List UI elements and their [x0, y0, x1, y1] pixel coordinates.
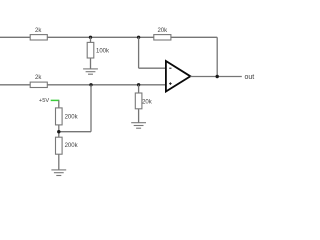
node: feedback junction on top net — [137, 36, 140, 39]
resistor R7 200k (lower divider) — [56, 137, 79, 154]
wire: stub from R2 down to ground — [90, 58, 92, 69]
ground (below R5) — [131, 123, 146, 129]
wire: horizontal from divider midpoint to resistor chain — [59, 131, 91, 133]
wire: horizontal into op-amp inverting input — [139, 67, 166, 69]
op-amp U1 — [166, 61, 191, 92]
wire: stub from +5V down to R6 — [58, 100, 60, 108]
ground (below R7) — [51, 170, 66, 176]
svg-text:20k: 20k — [157, 28, 168, 34]
node: 20k-to-ground junction on bottom net — [137, 83, 140, 86]
resistor R5 20k (vertical to ground) — [135, 93, 152, 109]
svg-text:200k: 200k — [65, 143, 79, 149]
wire: vertical from feedback node down toward op-amp inverting input — [138, 37, 140, 68]
svg-text:+5V: +5V — [39, 98, 49, 104]
wire: stub from R5 down to ground — [138, 109, 140, 123]
wire: +5V power wire (green) — [51, 99, 60, 101]
resistor R2 100k (vertical to ground) — [87, 42, 110, 58]
node: output junction with feedback — [216, 75, 219, 78]
svg-text:2k: 2k — [35, 28, 42, 34]
wire: feedback from R3 to output column — [171, 36, 217, 38]
svg-text:100k: 100k — [96, 48, 110, 54]
wire: top net left segment into R1 — [0, 36, 30, 38]
svg-text:20k: 20k — [142, 100, 153, 106]
resistor R6 200k (upper divider) — [56, 108, 79, 125]
wire: stub from top net down to R2 — [90, 37, 92, 42]
resistor R1 2k (horizontal, top-left) — [30, 28, 47, 40]
node: bias divider junction on bottom net — [89, 83, 92, 86]
wire: top net from R1 to feedback node — [47, 36, 154, 38]
resistor R3 20k (horizontal, feedback) — [154, 28, 171, 40]
svg-text:200k: 200k — [65, 114, 79, 120]
resistor R4 2k (horizontal, second input) — [30, 75, 47, 88]
ground (below R2) — [83, 69, 98, 74]
wire: output net — [190, 76, 241, 78]
node: junction of 100k on top net — [89, 36, 92, 39]
svg-text:2k: 2k — [35, 75, 42, 81]
wire: bottom net left segment into R4 — [0, 84, 30, 86]
wire: stub from R6 to divider midpoint — [58, 125, 60, 137]
wire: feedback vertical down to output net — [216, 37, 218, 76]
wire: stub from bottom net down to R5 — [138, 85, 140, 93]
node: divider midpoint junction — [57, 130, 60, 133]
wire: bottom net from R4 to op-amp non-inverting input — [47, 84, 165, 86]
wire: stub from R7 down to ground — [58, 154, 60, 170]
wire: vertical from bottom net down to divider midpoint — [90, 85, 92, 132]
svg-text:out: out — [245, 74, 255, 81]
